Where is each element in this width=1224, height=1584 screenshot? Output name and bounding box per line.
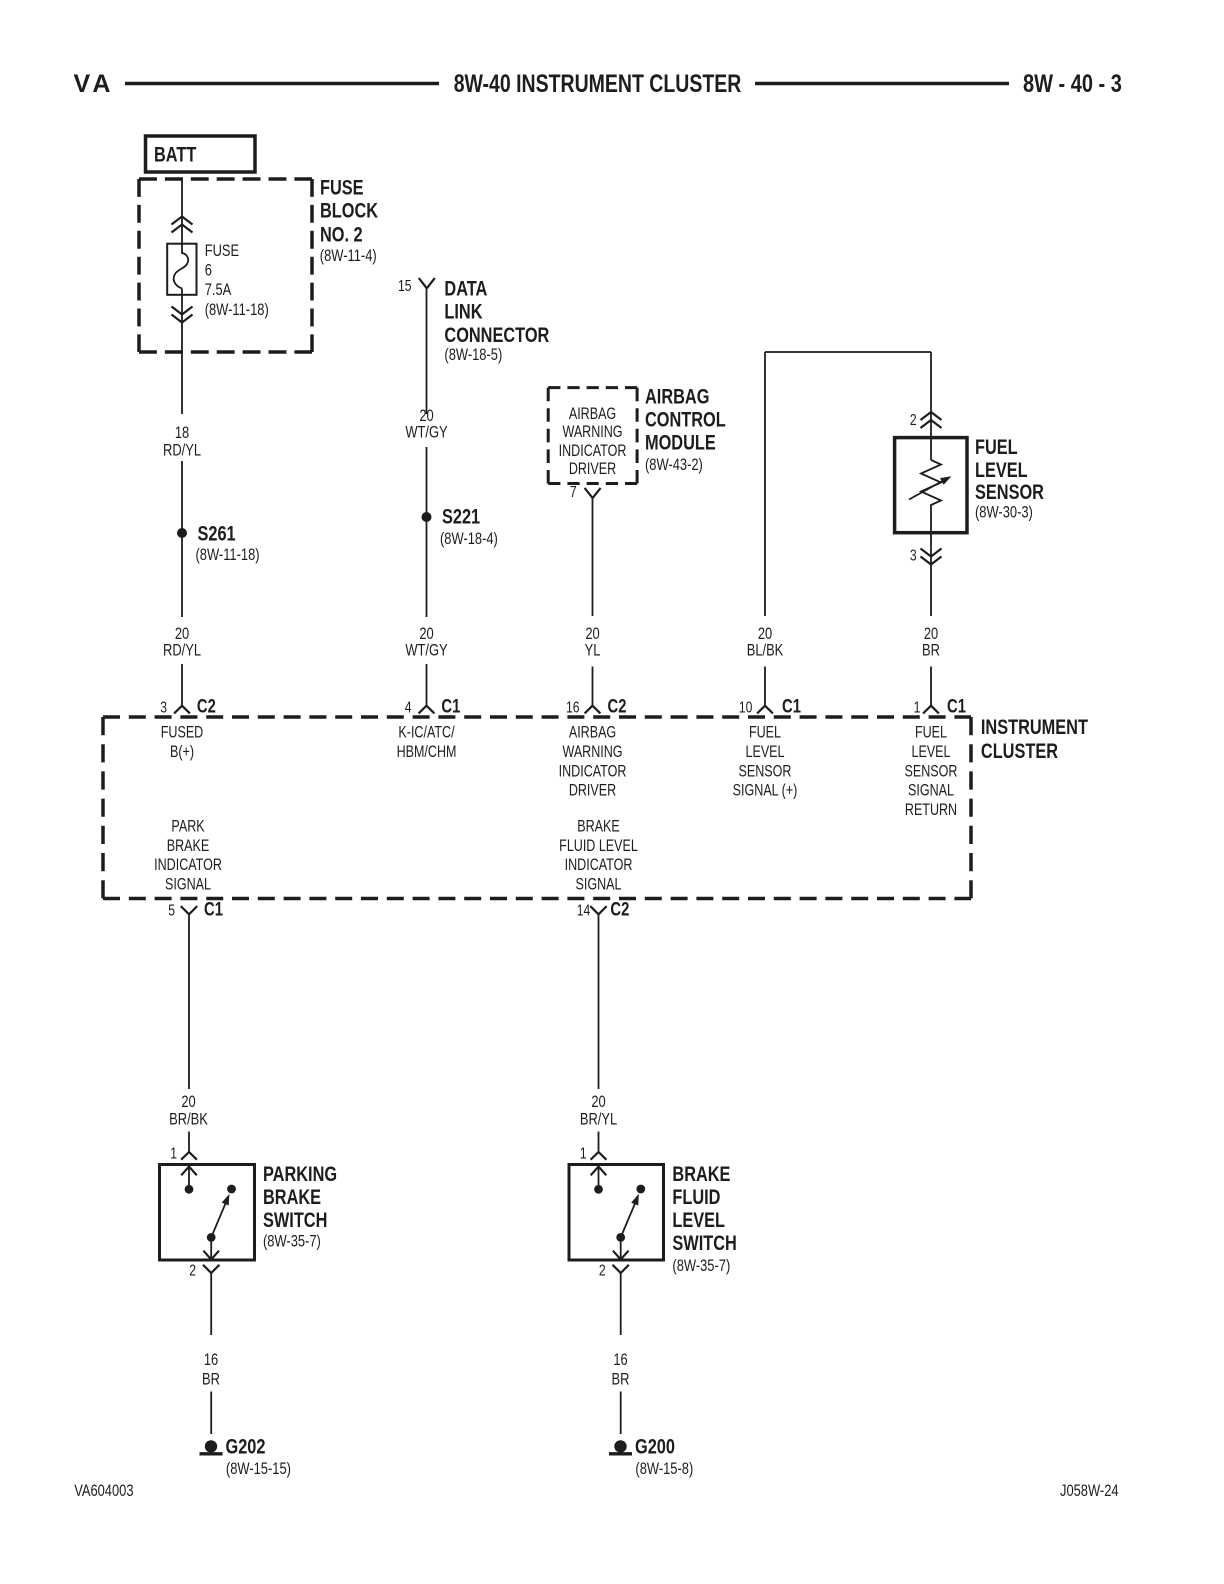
wire label 20 YL	[585, 624, 601, 660]
svg-text:BL/BK: BL/BK	[747, 641, 784, 660]
ground G202	[200, 1440, 223, 1454]
svg-text:BLOCK: BLOCK	[320, 199, 378, 223]
svg-text:C1: C1	[947, 695, 966, 718]
svg-text:AIRBAG: AIRBAG	[569, 406, 616, 424]
wire label to S261	[181, 461, 183, 617]
svg-text:14: 14	[577, 902, 591, 920]
airbag control module dashed box	[548, 388, 637, 484]
svg-text:SIGNAL: SIGNAL	[908, 782, 954, 800]
svg-text:7.5A: 7.5A	[205, 281, 232, 300]
svg-text:WT/GY: WT/GY	[405, 423, 447, 442]
wire label 16 BR	[202, 1350, 220, 1389]
svg-text:18: 18	[175, 423, 189, 442]
svg-text:INDICATOR: INDICATOR	[154, 857, 222, 875]
off-page double arrow up pin 2	[921, 412, 942, 428]
wire label 20 WT/GY	[405, 406, 447, 442]
svg-text:2: 2	[910, 411, 917, 429]
wire label 20 WT/GY lower	[405, 624, 447, 660]
svg-text:BRAKE: BRAKE	[263, 1186, 321, 1210]
svg-text:AIRBAG: AIRBAG	[569, 724, 616, 742]
svg-text:VA: VA	[74, 70, 115, 98]
svg-text:(8W-30-3): (8W-30-3)	[975, 503, 1033, 522]
variable resistor element	[909, 438, 953, 533]
fuel level sensor label	[975, 436, 1044, 522]
svg-text:RD/YL: RD/YL	[163, 641, 201, 660]
wire to ground G202	[210, 1392, 212, 1435]
svg-text:7: 7	[570, 483, 577, 501]
wire sensor down	[930, 533, 932, 616]
svg-text:S221: S221	[442, 505, 480, 529]
fuse block no.2 dashed box	[139, 179, 312, 352]
off-page double arrow up	[172, 217, 193, 233]
svg-text:(8W-15-15): (8W-15-15)	[226, 1459, 291, 1478]
wire BATT to fuse	[181, 178, 183, 245]
airbag module inner label	[559, 406, 627, 479]
svg-text:HBM/CHM: HBM/CHM	[397, 743, 457, 761]
svg-text:2: 2	[189, 1262, 196, 1280]
instrument cluster dashed box	[103, 717, 971, 899]
svg-text:FUSE: FUSE	[205, 241, 239, 260]
svg-text:1: 1	[170, 1145, 177, 1163]
svg-text:PARK: PARK	[171, 818, 204, 836]
svg-text:WARNING: WARNING	[562, 423, 622, 441]
airbag control module label	[645, 385, 726, 474]
svg-text:BR/YL: BR/YL	[580, 1110, 617, 1129]
wire label 20 BR	[922, 624, 940, 660]
splice S221	[422, 512, 432, 522]
wire to cluster pin 16	[592, 667, 594, 706]
svg-text:10: 10	[739, 699, 753, 717]
header rule right	[755, 82, 1009, 86]
svg-text:16: 16	[204, 1350, 218, 1369]
svg-text:SWITCH: SWITCH	[672, 1232, 736, 1256]
svg-text:FUEL: FUEL	[749, 724, 781, 742]
svg-text:BRAKE: BRAKE	[167, 837, 210, 855]
svg-text:SIGNAL: SIGNAL	[576, 876, 622, 894]
wire DLC down	[426, 288, 428, 414]
svg-text:20: 20	[181, 1092, 195, 1111]
svg-text:S261: S261	[198, 522, 236, 546]
wire label 20 BL/BK	[747, 624, 784, 660]
parking brake switch box	[160, 1165, 255, 1261]
svg-text:BRAKE: BRAKE	[577, 818, 620, 836]
wire to S221	[426, 447, 428, 617]
svg-text:BR: BR	[612, 1370, 630, 1389]
svg-text:BR/BK: BR/BK	[169, 1110, 208, 1129]
ground G200	[609, 1440, 632, 1454]
wire park brake down	[188, 914, 190, 1089]
svg-text:C1: C1	[441, 695, 460, 718]
wire fuse to label 18 RD/YL	[181, 289, 183, 415]
brake fluid level switch internals	[591, 1165, 645, 1260]
svg-text:DATA: DATA	[444, 278, 487, 302]
parking brake switch internals	[181, 1165, 236, 1260]
svg-text:FUSE: FUSE	[320, 176, 364, 200]
cluster node FUEL LEVEL SENSOR SIGNAL RETURN	[905, 724, 958, 819]
svg-text:G200: G200	[635, 1436, 675, 1460]
svg-text:FUEL: FUEL	[915, 724, 947, 742]
svg-text:LEVEL: LEVEL	[975, 459, 1028, 483]
svg-text:LEVEL: LEVEL	[911, 743, 950, 761]
wire to cluster pin 3	[181, 664, 183, 706]
svg-text:BATT: BATT	[154, 143, 197, 167]
connector fork pin 1 right	[591, 1152, 607, 1160]
svg-text:C1: C1	[204, 897, 223, 920]
svg-text:VA604003: VA604003	[74, 1481, 133, 1500]
splice S261	[177, 528, 187, 538]
fuse label FUSE 6 7.5A (8W-11-18)	[205, 241, 269, 319]
wire airbag down	[592, 498, 594, 616]
battery feed box BATT	[146, 136, 256, 172]
svg-text:(8W-15-8): (8W-15-8)	[635, 1459, 693, 1478]
svg-text:8W-40 INSTRUMENT CLUSTER: 8W-40 INSTRUMENT CLUSTER	[454, 69, 742, 97]
wire to cluster pin 4	[426, 664, 428, 706]
svg-text:5: 5	[168, 902, 175, 920]
fuse block label FUSE BLOCK NO. 2 (8W-11-4)	[320, 176, 378, 265]
svg-text:G202: G202	[226, 1436, 266, 1460]
svg-text:CLUSTER: CLUSTER	[981, 740, 1058, 764]
connector fork pin 1	[181, 1152, 197, 1160]
cluster node FUEL LEVEL SENSOR SIGNAL (+)	[733, 724, 798, 800]
svg-text:C2: C2	[608, 695, 627, 718]
svg-text:INDICATOR: INDICATOR	[565, 857, 633, 875]
svg-text:LEVEL: LEVEL	[672, 1209, 725, 1233]
connector fork pin 16 C2	[585, 706, 601, 714]
svg-text:1: 1	[580, 1145, 587, 1163]
wire label 20 RD/YL	[163, 624, 201, 660]
svg-text:WARNING: WARNING	[562, 743, 622, 761]
svg-text:15: 15	[398, 277, 412, 295]
svg-text:C2: C2	[610, 897, 629, 920]
wire label 18 RD/YL	[163, 423, 201, 460]
svg-text:(8W-11-4): (8W-11-4)	[320, 246, 377, 265]
wire label 20 BR/YL	[580, 1092, 617, 1129]
connector fork pin 10 C1	[757, 706, 773, 714]
svg-text:16: 16	[613, 1350, 627, 1369]
svg-text:FLUID LEVEL: FLUID LEVEL	[559, 837, 638, 855]
instrument cluster label	[981, 716, 1088, 764]
svg-text:3: 3	[910, 547, 917, 565]
svg-text:SENSOR: SENSOR	[975, 481, 1044, 505]
cluster node AIRBAG WARNING INDICATOR DRIVER	[559, 724, 627, 800]
wire to switch pin 1 right	[598, 1132, 600, 1153]
connector fork pin 3 C2	[174, 706, 190, 714]
svg-text:DRIVER: DRIVER	[569, 460, 616, 478]
svg-text:(8W-18-5): (8W-18-5)	[444, 345, 502, 364]
svg-text:FUSED: FUSED	[161, 724, 203, 742]
svg-text:AIRBAG: AIRBAG	[645, 385, 709, 409]
connector fork pin 4 C1	[419, 706, 435, 714]
svg-text:BR: BR	[922, 641, 940, 660]
svg-text:NO. 2: NO. 2	[320, 223, 363, 247]
wire to switch pin 1	[188, 1132, 190, 1153]
svg-text:SENSOR: SENSOR	[905, 763, 958, 781]
svg-text:FLUID: FLUID	[672, 1186, 720, 1210]
svg-text:YL: YL	[585, 641, 601, 660]
svg-text:(8W-11-18): (8W-11-18)	[205, 300, 269, 319]
connector fork pin 1 C1	[923, 706, 939, 714]
svg-text:BR: BR	[202, 1370, 220, 1389]
wire to cluster pin 10	[764, 667, 766, 706]
wire switch to label 16 BR	[210, 1273, 212, 1335]
svg-text:SENSOR: SENSOR	[739, 763, 792, 781]
brake fluid level switch box	[569, 1165, 664, 1261]
svg-text:3: 3	[160, 699, 167, 717]
svg-text:SWITCH: SWITCH	[263, 1209, 327, 1233]
header rule left	[125, 82, 439, 86]
wire right switch to label 16 BR	[620, 1273, 622, 1335]
brake fluid level switch label	[672, 1163, 736, 1276]
svg-text:DRIVER: DRIVER	[569, 782, 616, 800]
cluster node BRAKE FLUID LEVEL INDICATOR SIGNAL	[559, 818, 638, 894]
svg-text:6: 6	[205, 261, 212, 280]
svg-text:(8W-35-7): (8W-35-7)	[263, 1232, 321, 1251]
wire top horizontal BL/BK to fuel sensor	[765, 351, 931, 353]
wire to ground G200	[620, 1392, 622, 1435]
svg-text:(8W-18-4): (8W-18-4)	[440, 529, 498, 548]
wire label 20 BR/BK	[169, 1092, 208, 1129]
svg-text:20: 20	[591, 1092, 605, 1111]
svg-text:CONTROL: CONTROL	[645, 408, 726, 432]
data link connector label	[444, 278, 549, 365]
svg-text:C2: C2	[197, 695, 216, 718]
svg-text:MODULE: MODULE	[645, 431, 716, 455]
wire to cluster pin 1	[930, 667, 932, 706]
svg-text:C1: C1	[782, 695, 801, 718]
svg-text:B(+): B(+)	[170, 743, 194, 761]
svg-text:8W - 40 - 3: 8W - 40 - 3	[1023, 70, 1122, 98]
cluster node FUSED B(+)	[161, 724, 203, 761]
svg-text:WT/GY: WT/GY	[405, 641, 447, 660]
svg-text:BRAKE: BRAKE	[672, 1163, 730, 1187]
svg-text:(8W-43-2): (8W-43-2)	[645, 455, 703, 474]
svg-text:4: 4	[405, 699, 412, 717]
svg-text:(8W-11-18): (8W-11-18)	[196, 545, 260, 564]
svg-text:FUEL: FUEL	[975, 436, 1018, 460]
svg-text:CONNECTOR: CONNECTOR	[444, 324, 549, 348]
svg-text:K-IC/ATC/: K-IC/ATC/	[398, 724, 455, 742]
svg-text:(8W-35-7): (8W-35-7)	[672, 1256, 730, 1275]
cluster node K-IC/ATC/HBM/CHM	[397, 724, 457, 761]
svg-text:LINK: LINK	[444, 301, 482, 325]
svg-text:SIGNAL (+): SIGNAL (+)	[733, 782, 798, 800]
svg-text:16: 16	[566, 699, 580, 717]
off-page double arrow down	[172, 307, 193, 323]
wire brake fluid down	[598, 914, 600, 1089]
svg-text:SIGNAL: SIGNAL	[165, 876, 211, 894]
svg-text:RD/YL: RD/YL	[163, 441, 201, 460]
wire BL/BK vertical	[764, 352, 766, 616]
svg-text:J058W-24: J058W-24	[1060, 1481, 1119, 1500]
svg-text:1: 1	[914, 699, 921, 717]
svg-text:PARKING: PARKING	[263, 1163, 337, 1187]
fuse F6 7.5A symbol	[167, 244, 196, 295]
svg-text:RETURN: RETURN	[905, 801, 957, 819]
cluster node PARK BRAKE INDICATOR SIGNAL	[154, 818, 222, 894]
wire label 16 BR right	[612, 1350, 630, 1389]
svg-text:INSTRUMENT: INSTRUMENT	[981, 716, 1088, 740]
svg-text:INDICATOR: INDICATOR	[559, 442, 627, 460]
svg-text:2: 2	[599, 1262, 606, 1280]
svg-text:LEVEL: LEVEL	[745, 743, 784, 761]
wire to fuel level sensor pin 2	[930, 352, 932, 438]
svg-text:INDICATOR: INDICATOR	[559, 763, 627, 781]
fuel level sensor box	[895, 438, 967, 533]
parking brake switch label	[263, 1163, 337, 1251]
